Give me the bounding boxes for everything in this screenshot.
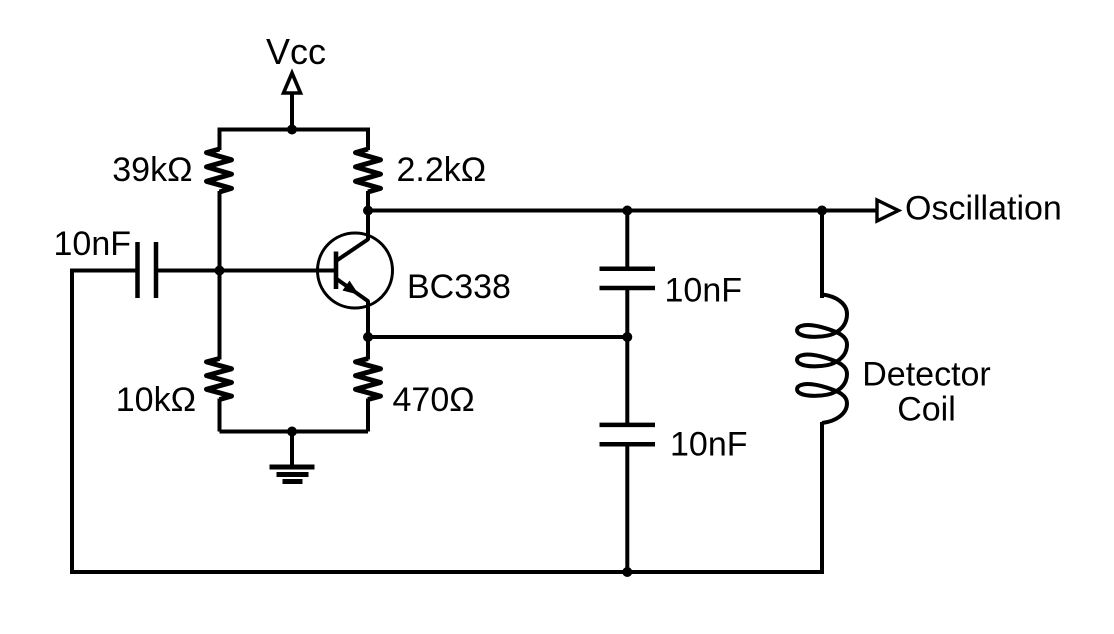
wire ground stem <box>290 432 294 468</box>
capacitor 10nF input plate right <box>154 242 159 298</box>
capacitor 10nF input plate left <box>135 242 140 298</box>
svg-text:10nF: 10nF <box>670 426 748 464</box>
wire C2 bottom lead <box>625 444 629 572</box>
wire 10k top lead <box>218 269 222 360</box>
junction divider node <box>622 332 632 342</box>
svg-text:Oscillation: Oscillation <box>905 190 1062 228</box>
wire emitter to capacitor divider <box>368 335 627 339</box>
wire oscillation output <box>368 209 877 213</box>
transistor Q1 base bar <box>334 252 339 290</box>
junction base node <box>215 266 225 276</box>
arrowhead oscillation output <box>877 200 899 221</box>
transistor Q1 emitter diagonal <box>336 279 369 302</box>
svg-text:Detector: Detector <box>862 356 991 394</box>
svg-text:2.2kΩ: 2.2kΩ <box>397 151 487 189</box>
wire emitter lead <box>366 301 370 338</box>
wire 2.2k top lead <box>366 128 370 151</box>
junction collector node <box>363 206 373 216</box>
wire base <box>156 269 336 273</box>
svg-text:10nF: 10nF <box>665 272 743 310</box>
wire coil bottom lead <box>820 422 824 572</box>
svg-text:39kΩ: 39kΩ <box>112 151 192 189</box>
resistor 39kΩ <box>207 149 232 192</box>
capacitor C2 10nF top plate <box>600 423 656 428</box>
wire 39k top lead <box>218 128 222 151</box>
wire bottom rail <box>70 570 824 574</box>
junction Vcc node <box>287 125 297 135</box>
resistor 470Ω <box>356 359 381 400</box>
wire C1 top lead <box>625 211 629 269</box>
svg-text:10nF: 10nF <box>54 225 132 263</box>
capacitor C1 10nF bottom plate <box>600 286 656 291</box>
ground <box>270 467 315 482</box>
capacitor C1 10nF top plate <box>600 267 656 272</box>
wire emitter ground rail <box>220 430 369 434</box>
wire 10k bottom lead <box>218 399 222 432</box>
junction bottom rail node <box>622 567 632 577</box>
svg-text:10kΩ: 10kΩ <box>116 381 196 419</box>
wire coil top lead <box>820 211 824 299</box>
junction ground node <box>287 427 297 437</box>
resistor 10kΩ <box>207 359 232 400</box>
transistor Q1 BC338 circle <box>318 233 393 308</box>
power symbol Vcc arrow <box>284 73 301 93</box>
wire 39k bottom lead <box>218 191 222 271</box>
wire 2.2k bottom lead <box>366 191 370 211</box>
transistor Q1 collector diagonal <box>336 239 369 261</box>
svg-text:Vcc: Vcc <box>266 31 326 72</box>
wire Vcc stem <box>290 92 294 132</box>
junction coil top node <box>817 206 827 216</box>
junction emitter node <box>363 332 373 342</box>
svg-text:470Ω: 470Ω <box>393 381 475 419</box>
wire 470 top lead <box>366 336 370 360</box>
wire top Vcc rail <box>220 128 369 132</box>
inductor detector coil <box>797 295 847 424</box>
svg-text:BC338: BC338 <box>407 268 511 306</box>
capacitor C2 10nF bottom plate <box>600 442 656 447</box>
wire 470 bottom lead <box>366 399 370 432</box>
wire capacitor divider middle <box>625 288 629 425</box>
wire feedback left <box>72 271 138 573</box>
junction C1 top node <box>622 206 632 216</box>
svg-text:Coil: Coil <box>897 391 956 429</box>
wire collector lead <box>366 211 370 241</box>
transistor Q1 emitter arrowhead <box>344 282 358 294</box>
resistor 2.2kΩ <box>356 149 381 192</box>
